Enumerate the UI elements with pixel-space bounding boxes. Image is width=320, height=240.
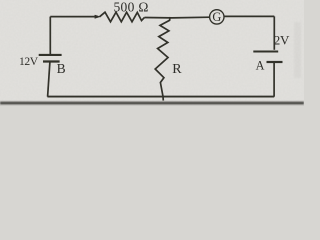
svg-text:2V: 2V — [274, 32, 290, 47]
svg-text:G: G — [212, 10, 221, 24]
wire top-middle segment (resistor to galvanometer) — [145, 16, 210, 19]
svg-text:R: R — [172, 62, 182, 77]
wire top-right segment (galvanometer to corner) — [224, 15, 274, 17]
scanned page edge at bottom (decorative) — [0, 102, 304, 105]
battery B short plate (negative) — [43, 60, 60, 62]
wire bottom-left vertical (battery B to corner) — [48, 62, 50, 97]
resistor 500 ohm zigzag — [100, 12, 145, 22]
wire left segment (top corner down to battery B) — [49, 17, 51, 55]
svg-text:B: B — [57, 61, 66, 76]
resistor R vertical zigzag with top junction stub — [155, 17, 170, 101]
wire right segment down to battery A — [273, 16, 275, 49]
galvanometer G circle — [210, 10, 224, 24]
current direction arrow — [95, 15, 100, 18]
battery A long plate (positive) — [253, 50, 278, 52]
faint scanner shadow near right edge (decorative) — [294, 22, 301, 78]
wire top-left segment — [50, 16, 94, 18]
svg-text:500 Ω: 500 Ω — [114, 0, 149, 14]
battery A short plate (negative) — [267, 61, 283, 63]
wire bottom segment — [47, 96, 274, 98]
paper background — [0, 0, 304, 106]
battery B long plate (positive) — [39, 54, 62, 56]
wire from battery A down to bottom-right corner — [273, 62, 275, 97]
svg-text:A: A — [256, 59, 265, 73]
svg-text:12V: 12V — [19, 55, 39, 68]
